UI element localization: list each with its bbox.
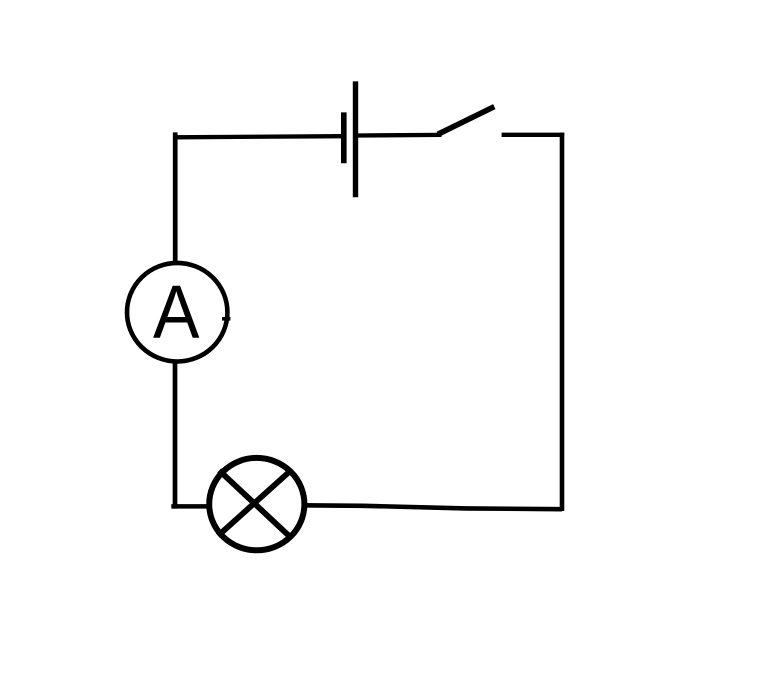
ammeter A1 : right tick stub xyxy=(222,317,230,321)
wire left vertical (top-left corner down to ammeter) xyxy=(173,132,178,263)
battery cell B1 : long plate (positive) xyxy=(353,81,358,197)
wire top horizontal (corner to battery) xyxy=(173,136,341,137)
ammeter A1 : circle xyxy=(127,263,227,362)
switch S1 (open lever) xyxy=(438,107,495,135)
lamp L1 : cross diagonal 1 xyxy=(219,471,289,537)
wire left vertical (ammeter down to bottom-left corner) xyxy=(173,361,178,509)
wire right vertical xyxy=(560,133,565,511)
wire bottom (lamp to bottom-right corner) xyxy=(302,505,563,509)
lamp L1 : cross diagonal 2 xyxy=(218,471,291,536)
svg-text:A: A xyxy=(153,270,200,354)
wire battery to switch xyxy=(358,133,442,138)
lamp L1 : circle xyxy=(209,458,304,550)
battery cell B1 : short plate (negative) xyxy=(341,112,347,163)
wire bottom-left horizontal (corner to lamp) xyxy=(171,504,207,509)
wire switch right contact xyxy=(502,133,565,137)
